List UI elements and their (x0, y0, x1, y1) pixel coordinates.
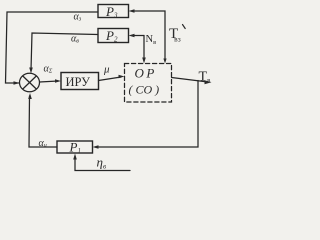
svg-text:μ: μ (103, 64, 110, 76)
svg-text:ОР: ОР (135, 66, 157, 81)
svg-text:ИРУ: ИРУ (66, 75, 91, 89)
svg-text:( СО ): ( СО ) (129, 83, 160, 97)
